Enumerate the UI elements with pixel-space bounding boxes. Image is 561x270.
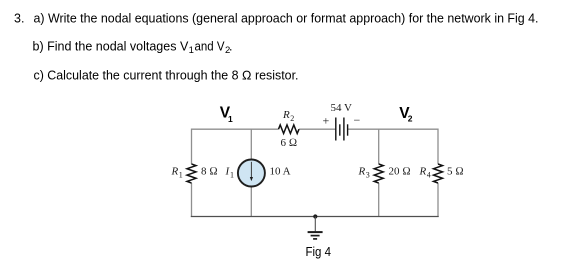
svg-text:Fig 4: Fig 4 <box>306 245 332 259</box>
wire: R3 branch upper <box>378 129 380 164</box>
svg-text:2: 2 <box>290 114 294 123</box>
ground stub wire <box>314 217 316 232</box>
svg-text:2: 2 <box>408 113 413 123</box>
battery E plate short 1 <box>339 124 341 135</box>
svg-text:3: 3 <box>366 171 370 180</box>
svg-text:54 V: 54 V <box>331 102 353 114</box>
current source arrowhead <box>250 177 253 181</box>
svg-text:1: 1 <box>189 45 194 56</box>
svg-text:8 Ω: 8 Ω <box>201 166 218 178</box>
svg-text:R: R <box>171 166 179 178</box>
svg-text:4: 4 <box>427 171 431 180</box>
ground junction dot <box>313 214 317 218</box>
wire: left branch lower <box>191 183 193 217</box>
svg-text:+: + <box>323 114 330 128</box>
svg-text:−: − <box>354 113 361 127</box>
svg-text:5 Ω: 5 Ω <box>447 166 464 178</box>
ground bar 3 <box>313 238 317 240</box>
wire: right branch lower <box>437 183 439 217</box>
svg-text:b) Find the nodal voltages V: b) Find the nodal voltages V <box>33 39 189 53</box>
battery E plate long 2 <box>343 118 345 141</box>
resistor R4 zigzag <box>434 164 443 183</box>
svg-text:1: 1 <box>228 114 233 124</box>
svg-text:c) Calculate the current throu: c) Calculate the current through the 8 Ω… <box>34 68 299 82</box>
svg-text:a) Write the nodal equations (: a) Write the nodal equations (general ap… <box>34 12 539 26</box>
wire: current source branch lower <box>250 187 252 217</box>
wire: R3 branch lower <box>378 183 380 217</box>
wire: top segment battery to top-right corner <box>348 128 438 130</box>
svg-text:1: 1 <box>230 171 234 180</box>
svg-text:3.: 3. <box>14 12 24 26</box>
svg-text:R: R <box>419 166 427 178</box>
wire: top segment between R2 and battery <box>299 128 336 130</box>
svg-text:6 Ω: 6 Ω <box>281 137 298 149</box>
svg-text:1: 1 <box>179 171 183 180</box>
wire: bottom rail <box>191 216 439 218</box>
svg-text:10 A: 10 A <box>270 166 291 178</box>
battery E plate short 2 <box>347 124 349 135</box>
wire: current source branch upper <box>250 129 252 159</box>
wire: right branch upper <box>437 129 439 165</box>
svg-text:R: R <box>282 109 290 121</box>
battery E plate long 1 <box>335 118 337 141</box>
resistor R1 zigzag <box>187 164 196 183</box>
svg-text:20 Ω: 20 Ω <box>389 166 411 178</box>
ground bar 2 <box>311 235 320 237</box>
wire: left branch upper <box>191 129 193 165</box>
current source I 10 A circle <box>238 160 265 187</box>
svg-text:R: R <box>358 166 366 178</box>
current source arrow stem <box>250 162 252 177</box>
svg-text:and V: and V <box>195 39 226 53</box>
svg-text:.: . <box>229 39 232 53</box>
ground bar 1 <box>308 231 323 233</box>
wire: top left segment V1 node rail <box>192 128 279 130</box>
resistor R2 zigzag <box>279 125 300 134</box>
resistor R3 zigzag <box>374 164 383 183</box>
